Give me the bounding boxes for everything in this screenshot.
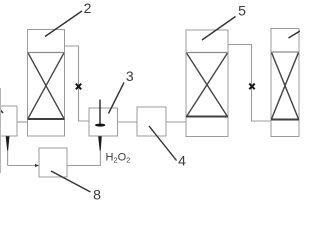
column 6 bottom tray — [271, 119, 299, 121]
column 2 shell — [28, 30, 65, 137]
label 4 leader — [149, 126, 177, 161]
arrowhead into box 8 — [35, 164, 39, 167]
pipe to box 8 left — [8, 165, 39, 167]
pipe column5 to valve2 to column6 — [228, 45, 271, 122]
column 2 packing X diagonal 2 — [28, 53, 64, 118]
label 5 leader — [202, 17, 236, 41]
column 5 packing X diagonal 1 — [187, 53, 228, 116]
column 5 bottom tray — [186, 116, 228, 118]
outlet line below vessel 1 — [7, 151, 9, 166]
vessel 1 (cut off at left image edge) — [0, 106, 17, 136]
pipe box4 to column5 — [166, 121, 186, 123]
pipe tank3 to box4 — [118, 121, 138, 123]
outlet arrow below vessel 1 — [6, 136, 10, 151]
pipe column2 to valve to tank3 — [65, 46, 90, 121]
box 4 shell — [137, 107, 166, 136]
column 6 label leader stub (label off image) — [289, 31, 301, 38]
column 6 shell (right, label cut off) — [271, 29, 299, 137]
label 8 leader — [51, 171, 91, 192]
pipe box 8 right to H2O2 feed riser — [67, 165, 101, 167]
agitator shaft — [99, 100, 101, 126]
valve V2 cross stroke 2 — [249, 84, 254, 90]
column 6 top tray — [271, 51, 299, 53]
H2O2 feed arrow into tank 3 — [98, 136, 102, 151]
svg-text:H2O2: H2O2 — [106, 152, 131, 165]
valve V1 cross stroke 1 — [76, 84, 81, 90]
agitator paddle — [95, 124, 105, 127]
label 2 leader — [45, 11, 82, 37]
column 5 top tray — [186, 52, 228, 54]
valve V2 cross stroke 1 — [249, 84, 254, 90]
svg-text:8: 8 — [93, 187, 101, 201]
column 2 bottom tray — [28, 118, 65, 120]
tank 3 shell — [89, 108, 118, 136]
scan edge artifact left — [0, 88, 2, 173]
leader line fragment into vessel 1 — [0, 108, 3, 113]
svg-text:4: 4 — [178, 153, 186, 169]
column 5 packing X diagonal 2 — [187, 53, 228, 116]
column 6 packing X diagonal 1 — [272, 53, 299, 119]
column 6 packing X diagonal 2 — [272, 53, 299, 119]
column 5 shell — [186, 30, 228, 137]
svg-text:5: 5 — [238, 3, 246, 19]
column 2 packing X diagonal 1 — [28, 53, 64, 118]
label 3 leader — [109, 83, 125, 114]
box 8 shell — [39, 148, 67, 177]
valve V1 cross stroke 2 — [76, 84, 81, 90]
svg-text:3: 3 — [126, 68, 134, 84]
column 2 top tray — [28, 52, 65, 54]
H2O2 feed line — [99, 151, 101, 166]
svg-text:2: 2 — [84, 0, 92, 16]
pipe vessel1 to column2 — [17, 121, 28, 123]
